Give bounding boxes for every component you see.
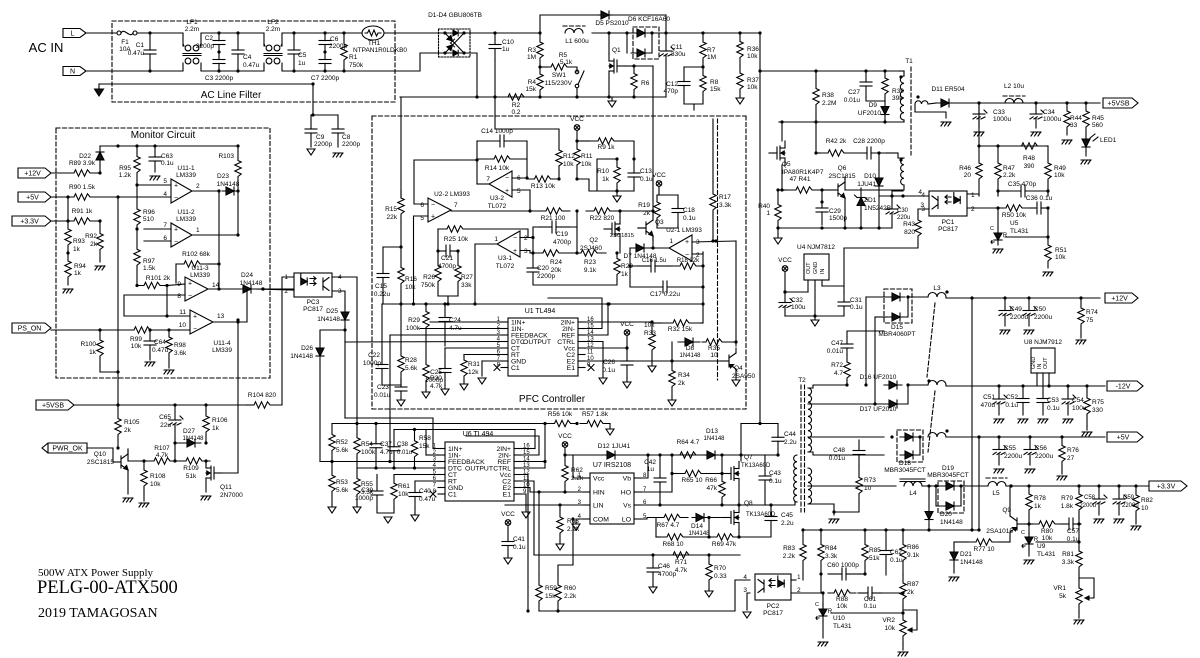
- svg-text:R105: R105: [124, 419, 140, 426]
- svg-text:2.2k: 2.2k: [564, 593, 577, 600]
- svg-text:U5: U5: [1010, 220, 1019, 227]
- svg-text:R28: R28: [405, 357, 417, 364]
- svg-text:33: 33: [1070, 122, 1078, 129]
- svg-text:D10: D10: [864, 173, 876, 180]
- svg-text:10: 10: [710, 352, 718, 359]
- svg-text:C36 0.1u: C36 0.1u: [1026, 195, 1053, 202]
- svg-text:PWR_OK: PWR_OK: [52, 446, 83, 453]
- svg-text:20: 20: [964, 172, 972, 179]
- svg-text:10: 10: [179, 322, 187, 329]
- svg-text:C8: C8: [342, 134, 351, 141]
- svg-text:2k: 2k: [90, 241, 98, 248]
- svg-text:4: 4: [918, 189, 922, 196]
- svg-text:1.2k: 1.2k: [119, 172, 132, 179]
- svg-text:VCC: VCC: [652, 172, 666, 179]
- svg-text:NTPAN1R0LDKB0: NTPAN1R0LDKB0: [353, 47, 407, 54]
- svg-text:4: 4: [743, 574, 747, 581]
- svg-text:C9: C9: [316, 134, 325, 141]
- svg-text:51k: 51k: [186, 473, 197, 480]
- svg-text:2200p: 2200p: [342, 141, 360, 148]
- svg-text:2SJ460: 2SJ460: [580, 245, 602, 252]
- svg-text:9.1k: 9.1k: [907, 552, 920, 559]
- svg-text:C2: C2: [205, 35, 214, 42]
- svg-text:C48: C48: [833, 447, 845, 454]
- svg-text:C43: C43: [769, 470, 781, 477]
- svg-text:1N4148: 1N4148: [317, 316, 340, 323]
- svg-text:3.6k: 3.6k: [174, 350, 187, 357]
- svg-text:1: 1: [669, 238, 673, 245]
- svg-text:13: 13: [217, 313, 225, 320]
- svg-text:3.3k: 3.3k: [1062, 559, 1075, 566]
- svg-text:−: −: [513, 235, 517, 242]
- svg-text:0.22u: 0.22u: [374, 291, 391, 298]
- svg-text:1N4148: 1N4148: [240, 280, 263, 287]
- svg-text:VR2: VR2: [882, 617, 895, 624]
- svg-text:15k: 15k: [526, 86, 537, 93]
- svg-text:330: 330: [1092, 407, 1103, 414]
- svg-text:C56: C56: [1035, 445, 1047, 452]
- svg-text:U11-1: U11-1: [177, 165, 195, 172]
- svg-text:C30: C30: [897, 208, 909, 214]
- svg-text:51k: 51k: [869, 555, 880, 562]
- svg-text:D1-D4 GBU806TB: D1-D4 GBU806TB: [428, 12, 482, 19]
- svg-text:R54: R54: [361, 441, 373, 448]
- svg-text:D13: D13: [706, 428, 718, 435]
- svg-text:R80: R80: [1041, 528, 1053, 535]
- svg-text:1: 1: [797, 574, 801, 581]
- svg-text:2SC1815: 2SC1815: [610, 233, 634, 239]
- svg-text:470p: 470p: [664, 88, 679, 95]
- svg-text:R60: R60: [564, 585, 576, 592]
- svg-text:MBR3045FCT: MBR3045FCT: [927, 472, 969, 479]
- svg-text:1.8k: 1.8k: [1061, 503, 1074, 510]
- svg-text:4700p: 4700p: [658, 571, 676, 578]
- svg-text:2200u: 2200u: [1035, 453, 1053, 460]
- svg-text:100k: 100k: [406, 325, 421, 332]
- svg-text:470u: 470u: [981, 402, 996, 409]
- svg-text:0.1u: 0.1u: [850, 304, 863, 311]
- svg-text:R36: R36: [747, 46, 759, 53]
- svg-text:R8: R8: [710, 79, 719, 86]
- svg-text:5: 5: [517, 188, 521, 195]
- svg-text:R40: R40: [758, 203, 770, 210]
- svg-text:2SC1815: 2SC1815: [828, 173, 855, 180]
- svg-text:C: C: [1021, 530, 1025, 536]
- svg-text:C52: C52: [1006, 394, 1018, 401]
- svg-text:R56 10k: R56 10k: [548, 411, 573, 418]
- svg-text:0.01u: 0.01u: [844, 97, 861, 104]
- svg-text:7: 7: [163, 222, 167, 229]
- svg-text:L2 10u: L2 10u: [1004, 83, 1024, 90]
- svg-text:10k: 10k: [747, 84, 758, 91]
- svg-text:R94: R94: [74, 263, 86, 270]
- svg-text:9.1k: 9.1k: [584, 267, 597, 274]
- svg-text:TL072: TL072: [496, 263, 515, 270]
- svg-text:C64: C64: [154, 339, 166, 346]
- svg-text:15k: 15k: [710, 86, 721, 93]
- svg-text:C55: C55: [1004, 445, 1016, 452]
- svg-text:T1: T1: [905, 58, 913, 65]
- svg-text:R67 4.7: R67 4.7: [657, 522, 680, 529]
- svg-text:+3.3V: +3.3V: [20, 219, 39, 226]
- svg-text:R38: R38: [822, 92, 834, 99]
- svg-text:C38: C38: [397, 442, 409, 448]
- svg-text:1k: 1k: [212, 425, 220, 432]
- svg-text:5k: 5k: [1059, 593, 1067, 600]
- svg-text:10k: 10k: [150, 481, 161, 488]
- svg-text:PC3: PC3: [307, 299, 320, 306]
- svg-text:C21: C21: [441, 255, 453, 262]
- svg-text:C18: C18: [683, 207, 695, 214]
- svg-text:2: 2: [971, 206, 975, 213]
- svg-text:C49: C49: [1010, 306, 1022, 313]
- svg-text:C32: C32: [791, 297, 803, 304]
- svg-text:10k: 10k: [1042, 535, 1053, 542]
- svg-text:0.1u: 0.1u: [640, 176, 653, 183]
- svg-text:R66: R66: [705, 477, 717, 484]
- svg-text:10k: 10k: [644, 322, 655, 329]
- svg-text:R25 10k: R25 10k: [444, 236, 469, 243]
- svg-text:VCC: VCC: [501, 511, 515, 518]
- svg-text:2.2m: 2.2m: [266, 26, 280, 33]
- svg-text:−: −: [193, 326, 197, 333]
- svg-text:2200u: 2200u: [1034, 314, 1052, 321]
- svg-text:R31: R31: [468, 361, 480, 368]
- svg-text:LO: LO: [622, 517, 631, 524]
- svg-text:820: 820: [904, 229, 915, 236]
- svg-text:1: 1: [494, 236, 498, 243]
- svg-text:PELG-00-ATX500: PELG-00-ATX500: [37, 578, 178, 598]
- svg-text:15k: 15k: [419, 443, 430, 450]
- svg-text:0.1u: 0.1u: [161, 160, 174, 167]
- svg-text:R61: R61: [398, 483, 410, 490]
- svg-text:0.1u: 0.1u: [683, 215, 696, 222]
- svg-text:R72: R72: [831, 362, 843, 369]
- svg-text:10k: 10k: [398, 491, 409, 498]
- svg-text:10: 10: [1141, 505, 1149, 512]
- svg-text:LM339: LM339: [190, 272, 210, 279]
- svg-text:1000u: 1000u: [993, 116, 1011, 123]
- svg-text:2k: 2k: [907, 589, 915, 596]
- svg-text:MBR3045FCT: MBR3045FCT: [884, 467, 926, 474]
- svg-text:HO: HO: [621, 490, 631, 497]
- svg-text:D21: D21: [960, 551, 972, 558]
- svg-text:D9: D9: [869, 102, 878, 109]
- svg-text:R44: R44: [1070, 115, 1082, 122]
- svg-text:2.2m: 2.2m: [185, 26, 199, 33]
- svg-text:510: 510: [143, 216, 154, 223]
- svg-text:1N4148: 1N4148: [290, 353, 313, 360]
- svg-text:U3-1: U3-1: [498, 255, 512, 262]
- svg-text:2.2u: 2.2u: [784, 439, 797, 446]
- svg-text:2.2k: 2.2k: [1003, 172, 1016, 179]
- svg-text:TK13A60D: TK13A60D: [741, 463, 771, 469]
- svg-text:27: 27: [1067, 455, 1075, 462]
- svg-text:C27: C27: [848, 89, 860, 96]
- svg-text:1u: 1u: [298, 60, 306, 67]
- svg-text:C: C: [990, 226, 994, 232]
- svg-text:12k: 12k: [468, 369, 479, 376]
- svg-text:75: 75: [1086, 317, 1094, 324]
- svg-text:−: −: [174, 195, 178, 202]
- svg-text:L4: L4: [909, 490, 917, 497]
- svg-text:D5 PS2010: D5 PS2010: [595, 20, 629, 27]
- svg-text:R77 10: R77 10: [974, 546, 995, 553]
- svg-text:C61: C61: [864, 596, 876, 603]
- svg-text:10k: 10k: [837, 603, 848, 610]
- svg-text:330u: 330u: [671, 51, 686, 58]
- svg-text:C6: C6: [330, 36, 339, 43]
- svg-text:+: +: [685, 239, 689, 246]
- svg-text:0.1u: 0.1u: [769, 478, 782, 485]
- svg-text:ZD1: ZD1: [864, 197, 877, 204]
- svg-text:Vs: Vs: [623, 503, 632, 510]
- svg-text:C51: C51: [983, 394, 995, 401]
- svg-text:LF1: LF1: [186, 19, 198, 26]
- svg-text:R52: R52: [336, 439, 348, 446]
- svg-text:D27: D27: [183, 428, 195, 435]
- svg-text:0.2: 0.2: [511, 109, 520, 116]
- svg-text:3: 3: [920, 202, 924, 209]
- svg-text:R21 100: R21 100: [541, 215, 566, 222]
- svg-text:0.47u: 0.47u: [419, 496, 436, 503]
- svg-text:1u: 1u: [647, 466, 655, 473]
- svg-text:Q4: Q4: [734, 365, 743, 372]
- svg-text:R69 47k: R69 47k: [712, 541, 737, 548]
- svg-text:10k: 10k: [563, 161, 574, 168]
- svg-text:U2-1 LM393: U2-1 LM393: [666, 227, 702, 234]
- svg-text:1k: 1k: [89, 349, 97, 356]
- svg-text:C46: C46: [658, 563, 670, 570]
- svg-text:+5V: +5V: [26, 195, 39, 202]
- svg-text:5.6k: 5.6k: [336, 487, 349, 494]
- svg-text:Q10: Q10: [94, 451, 107, 458]
- svg-text:R106: R106: [212, 417, 228, 424]
- svg-text:TL072: TL072: [488, 203, 507, 210]
- svg-text:0.1u: 0.1u: [513, 544, 526, 551]
- svg-text:R43: R43: [903, 221, 915, 228]
- svg-text:C29: C29: [829, 208, 841, 215]
- svg-text:1u: 1u: [502, 46, 510, 53]
- svg-text:R78: R78: [1034, 495, 1046, 502]
- svg-text:4.7k: 4.7k: [156, 452, 169, 459]
- svg-text:11: 11: [587, 350, 594, 356]
- svg-text:1.5k: 1.5k: [143, 265, 156, 272]
- svg-text:PS_ON: PS_ON: [18, 326, 42, 333]
- svg-text:U11-2: U11-2: [177, 209, 195, 216]
- svg-text:+12V: +12V: [1111, 296, 1128, 303]
- svg-text:R64 4.7: R64 4.7: [677, 439, 700, 446]
- svg-text:R75: R75: [1092, 399, 1104, 406]
- svg-text:IPA80R1K4P7: IPA80R1K4P7: [782, 169, 824, 176]
- svg-text:R48: R48: [1023, 155, 1035, 162]
- svg-text:1k: 1k: [1034, 503, 1042, 510]
- svg-text:−: −: [174, 239, 178, 246]
- svg-text:R97: R97: [143, 258, 155, 265]
- svg-text:115/230V: 115/230V: [545, 80, 573, 87]
- svg-text:R84: R84: [825, 545, 837, 552]
- svg-text:22k: 22k: [387, 214, 398, 221]
- svg-text:+5VSB: +5VSB: [1108, 101, 1130, 108]
- svg-text:R15: R15: [385, 206, 397, 213]
- svg-text:+12V: +12V: [24, 171, 41, 178]
- svg-text:R96: R96: [143, 209, 155, 216]
- svg-text:C63: C63: [161, 153, 173, 160]
- svg-text:R39: R39: [892, 88, 904, 95]
- svg-text:3: 3: [696, 239, 700, 246]
- svg-text:Vcc: Vcc: [593, 476, 605, 483]
- svg-text:-12V: -12V: [1116, 384, 1131, 391]
- svg-text:U3-2: U3-2: [490, 195, 504, 202]
- svg-text:+: +: [193, 314, 197, 321]
- svg-text:1000p: 1000p: [363, 360, 381, 367]
- svg-text:PC2: PC2: [767, 603, 780, 610]
- svg-text:U11-3: U11-3: [191, 265, 209, 272]
- svg-text:0.47u: 0.47u: [128, 50, 145, 57]
- svg-text:390: 390: [1024, 163, 1035, 170]
- svg-text:LM339: LM339: [176, 216, 196, 223]
- svg-text:TL431: TL431: [833, 623, 852, 630]
- svg-text:10k: 10k: [1054, 172, 1065, 179]
- svg-text:D19: D19: [942, 465, 954, 472]
- svg-text:C50: C50: [1034, 306, 1046, 313]
- svg-text:1000p: 1000p: [425, 377, 443, 384]
- svg-text:R11: R11: [581, 153, 593, 160]
- svg-text:+: +: [431, 214, 435, 221]
- svg-text:R27: R27: [461, 274, 473, 281]
- svg-text:MBR4060PT: MBR4060PT: [878, 331, 915, 338]
- svg-text:C7 2200p: C7 2200p: [311, 75, 340, 82]
- svg-text:U6 TL494: U6 TL494: [463, 431, 494, 438]
- svg-text:LM339: LM339: [212, 347, 232, 354]
- svg-text:PC817: PC817: [303, 306, 323, 313]
- svg-text:OUTPUT: OUTPUT: [465, 466, 493, 473]
- svg-text:D11 ER504: D11 ER504: [931, 86, 965, 93]
- svg-text:R29: R29: [408, 317, 420, 324]
- svg-text:0.1u: 0.1u: [1047, 405, 1060, 412]
- svg-text:U1 TL494: U1 TL494: [525, 308, 556, 315]
- svg-text:R90 1.5k: R90 1.5k: [69, 184, 96, 191]
- svg-text:10k: 10k: [1055, 254, 1066, 261]
- svg-text:1: 1: [766, 210, 770, 217]
- svg-text:E1: E1: [567, 365, 576, 372]
- svg-text:0.1u: 0.1u: [890, 557, 903, 564]
- svg-text:1N4148: 1N4148: [960, 559, 983, 566]
- svg-text:R47: R47: [1003, 165, 1015, 172]
- svg-text:R53: R53: [336, 479, 348, 486]
- svg-text:R99: R99: [130, 336, 142, 343]
- svg-text:LIN: LIN: [593, 503, 604, 510]
- svg-text:OUT: OUT: [806, 262, 812, 274]
- svg-text:R22 820: R22 820: [590, 215, 615, 222]
- svg-text:R: R: [1003, 233, 1008, 239]
- svg-text:1000p: 1000p: [355, 495, 373, 502]
- svg-text:U4 NJM7812: U4 NJM7812: [797, 244, 835, 251]
- svg-text:R4: R4: [528, 79, 537, 86]
- svg-text:+: +: [188, 281, 192, 288]
- svg-text:C41: C41: [513, 536, 525, 543]
- svg-text:TL431: TL431: [1010, 228, 1029, 235]
- svg-text:1: 1: [196, 227, 200, 234]
- svg-text:C20: C20: [537, 265, 549, 272]
- svg-text:1: 1: [971, 192, 975, 199]
- svg-text:R34: R34: [678, 372, 690, 379]
- svg-text:15k: 15k: [545, 593, 556, 600]
- svg-text:C4: C4: [243, 54, 252, 61]
- svg-text:D12 1JU41: D12 1JU41: [598, 443, 631, 450]
- svg-text:LED1: LED1: [1100, 137, 1117, 144]
- svg-text:6: 6: [420, 202, 424, 209]
- svg-text:C33: C33: [993, 109, 1005, 116]
- svg-text:R37: R37: [747, 77, 759, 84]
- svg-text:R79: R79: [1061, 495, 1073, 502]
- svg-text:R26: R26: [423, 274, 435, 281]
- svg-text:C47: C47: [831, 340, 843, 347]
- svg-text:U2-2 LM393: U2-2 LM393: [434, 191, 470, 198]
- svg-text:C10: C10: [502, 39, 514, 46]
- svg-text:C11: C11: [671, 44, 683, 51]
- svg-text:R1: R1: [349, 54, 358, 61]
- svg-text:VCC: VCC: [778, 257, 792, 264]
- svg-text:PFC Controller: PFC Controller: [519, 394, 586, 405]
- svg-text:U8 NJM7912: U8 NJM7912: [1024, 339, 1062, 346]
- svg-text:C31: C31: [850, 297, 862, 304]
- svg-text:C65: C65: [159, 414, 171, 421]
- svg-text:PC817: PC817: [763, 610, 783, 617]
- svg-text:2N7000: 2N7000: [220, 492, 243, 499]
- svg-text:2.2u: 2.2u: [781, 520, 794, 527]
- svg-text:VCC: VCC: [558, 433, 572, 440]
- svg-text:C24: C24: [449, 317, 461, 324]
- svg-text:4.7k: 4.7k: [675, 567, 688, 574]
- svg-text:2019 TAMAGOSAN: 2019 TAMAGOSAN: [38, 606, 158, 621]
- svg-text:Q8: Q8: [744, 500, 753, 507]
- svg-text:2k: 2k: [643, 210, 651, 217]
- svg-text:OUT: OUT: [1043, 357, 1049, 369]
- svg-text:R7: R7: [707, 47, 716, 54]
- svg-text:C57: C57: [1067, 528, 1079, 535]
- svg-text:IN: IN: [820, 268, 826, 274]
- svg-text:R2: R2: [512, 102, 521, 109]
- svg-text:D16 UF2010: D16 UF2010: [860, 374, 897, 381]
- svg-text:LM339: LM339: [176, 172, 196, 179]
- svg-text:R86: R86: [907, 544, 919, 551]
- svg-text:R74: R74: [1086, 309, 1098, 316]
- svg-text:C14 1000p: C14 1000p: [481, 128, 513, 135]
- svg-text:PC817: PC817: [938, 226, 958, 233]
- svg-text:10k: 10k: [405, 284, 416, 291]
- svg-text:R13 10k: R13 10k: [531, 183, 556, 190]
- svg-text:R50 10k: R50 10k: [1002, 212, 1027, 219]
- svg-text:C42: C42: [644, 459, 656, 466]
- svg-text:U7 IRS2108: U7 IRS2108: [593, 462, 631, 469]
- svg-text:R108: R108: [150, 473, 166, 480]
- svg-text:0.1u: 0.1u: [1005, 402, 1018, 409]
- svg-text:2k: 2k: [678, 380, 686, 387]
- svg-text:D18: D18: [899, 460, 911, 467]
- svg-text:2: 2: [284, 288, 288, 295]
- svg-text:0.01u: 0.01u: [827, 348, 844, 355]
- svg-text:10k: 10k: [131, 343, 142, 350]
- svg-text:R81: R81: [1062, 551, 1074, 558]
- svg-text:2: 2: [196, 183, 200, 190]
- svg-text:+: +: [513, 248, 517, 255]
- svg-text:D24: D24: [241, 272, 253, 279]
- svg-text:R23: R23: [584, 259, 596, 266]
- svg-text:R9 1k: R9 1k: [598, 144, 616, 151]
- svg-text:R3: R3: [528, 47, 537, 54]
- svg-text:C40: C40: [419, 488, 431, 495]
